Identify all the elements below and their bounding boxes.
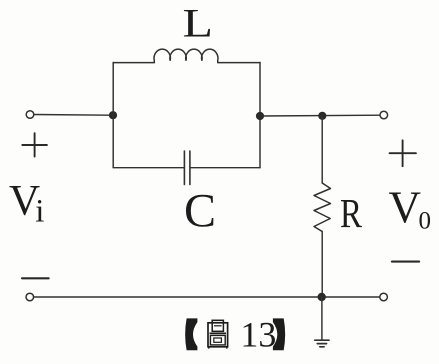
terminal Vo+ xyxy=(380,111,388,119)
plus sign Vo xyxy=(390,140,416,166)
wire LC top right xyxy=(218,62,260,64)
inductor L xyxy=(154,49,218,62)
svg-text:13: 13 xyxy=(240,315,276,355)
wire LC top left xyxy=(113,62,154,64)
wire LC bottom left xyxy=(113,167,183,169)
minus sign Vo xyxy=(392,261,419,263)
capacitor C xyxy=(184,151,190,185)
terminal Vo- xyxy=(380,293,388,301)
wire bottom rail xyxy=(34,296,380,298)
caption bracket left xyxy=(185,318,197,350)
wire LC right vertical xyxy=(259,63,261,168)
svg-text:R: R xyxy=(340,190,363,236)
wire resistor bottom xyxy=(321,232,323,298)
node ground junction xyxy=(318,293,326,301)
svg-text:0: 0 xyxy=(419,208,432,235)
node R top xyxy=(318,112,326,120)
svg-text:L: L xyxy=(183,0,214,45)
caption bracket right xyxy=(273,318,285,350)
svg-text:i: i xyxy=(35,194,44,230)
wire input top xyxy=(34,114,110,117)
resistor R xyxy=(314,183,331,232)
svg-text:C: C xyxy=(184,184,216,237)
node LC right xyxy=(256,112,264,120)
ground xyxy=(315,340,329,347)
wire LC left vertical xyxy=(112,63,114,168)
wire ground stem xyxy=(321,297,323,340)
wire output top xyxy=(260,114,380,117)
wire LC bottom right xyxy=(191,167,260,169)
plus sign Vi xyxy=(22,133,47,156)
terminal Vi- xyxy=(26,293,34,301)
svg-text:V: V xyxy=(389,182,422,232)
caption glyph 圖 xyxy=(208,320,228,348)
node input junction xyxy=(109,111,117,119)
wire resistor top xyxy=(321,116,323,183)
terminal Vi+ xyxy=(26,111,34,119)
minus sign Vi xyxy=(22,277,49,279)
